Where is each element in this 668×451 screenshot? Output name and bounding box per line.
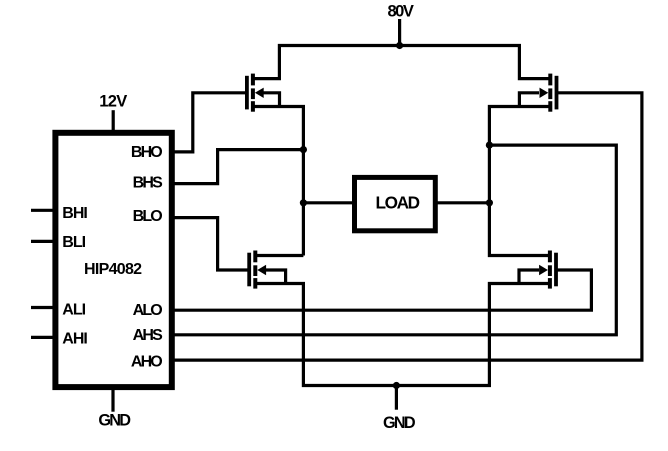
wire BLO to Q3 gate xyxy=(173,218,248,270)
transistor Q3 gate bar xyxy=(247,253,251,287)
wire BHI pin stub xyxy=(31,209,56,212)
wire Q1 source to node B vertical xyxy=(253,107,303,256)
node A LOAD junction xyxy=(486,199,493,206)
wire Q4 body tie xyxy=(519,270,539,284)
transistor Q2 channel segments xyxy=(548,74,552,112)
svg-text:GND: GND xyxy=(98,412,131,430)
op-amp U1 HIP4082 IC body xyxy=(55,133,171,387)
node B BHS junction xyxy=(300,146,307,153)
transistor Q2 gate bar xyxy=(555,76,559,110)
svg-text:HIP4082: HIP4082 xyxy=(84,261,142,278)
svg-text:80V: 80V xyxy=(387,3,413,21)
svg-text:BHO: BHO xyxy=(131,144,162,161)
transistor Q4 channel segments xyxy=(548,251,552,289)
wire Q2 gate to AHO xyxy=(173,93,642,360)
wire node B to LOAD left xyxy=(303,201,353,204)
svg-text:12V: 12V xyxy=(99,93,127,111)
node GND junction xyxy=(393,382,400,389)
node 80V junction xyxy=(396,42,403,49)
wire 80V rail with drain drops to Q1 and Q2 xyxy=(253,46,550,79)
svg-text:ALO: ALO xyxy=(133,302,163,319)
wire 12V stub xyxy=(112,110,115,131)
wire ALO to Q4 gate xyxy=(173,270,591,310)
svg-text:AHI: AHI xyxy=(62,331,87,348)
wire AHI pin stub xyxy=(31,336,56,339)
wire ALI pin stub xyxy=(31,306,56,309)
transistor Q3 channel segments xyxy=(253,251,257,289)
wire AHS net from node A xyxy=(173,145,616,335)
svg-text:ALI: ALI xyxy=(62,301,85,318)
transistor Q3 body arrow xyxy=(257,265,266,275)
wire BHO to Q1 gate xyxy=(173,93,246,152)
wire Q2 body tie xyxy=(519,93,539,107)
wire GND stub below IC xyxy=(111,389,114,412)
svg-text:GND: GND xyxy=(383,414,416,432)
wire Q1 body tie xyxy=(262,93,280,107)
svg-text:BLO: BLO xyxy=(133,208,163,225)
svg-text:BHS: BHS xyxy=(133,174,163,191)
wire Q3 source, ground rail, Q4 source xyxy=(256,284,550,386)
svg-text:AHO: AHO xyxy=(131,354,162,371)
svg-text:BHI: BHI xyxy=(62,205,87,222)
wire Q3 body tie xyxy=(265,270,286,284)
transistor Q4 gate bar xyxy=(554,253,558,287)
transistor Q4 body arrow xyxy=(539,265,548,275)
transistor Q1 body arrow xyxy=(255,88,264,98)
svg-text:BLI: BLI xyxy=(62,234,85,251)
wire Q2 source, node A vertical, Q4 drain xyxy=(489,107,550,256)
wire ground stub center xyxy=(395,386,398,410)
svg-text:AHS: AHS xyxy=(133,327,163,344)
wire LOAD right to node A xyxy=(436,201,489,204)
svg-text:LOAD: LOAD xyxy=(375,193,419,213)
transistor Q2 body arrow xyxy=(540,88,549,98)
load box xyxy=(355,177,436,230)
wire BHS to node B xyxy=(173,150,303,184)
wire 80V stub xyxy=(398,19,401,47)
transistor Q1 channel segments xyxy=(251,74,255,112)
wire Q3 drain to node B xyxy=(256,254,303,257)
wire BLI pin stub xyxy=(31,240,56,243)
node B LOAD junction xyxy=(300,199,307,206)
transistor Q1 gate bar xyxy=(245,76,249,110)
node A AHS junction xyxy=(486,142,493,149)
